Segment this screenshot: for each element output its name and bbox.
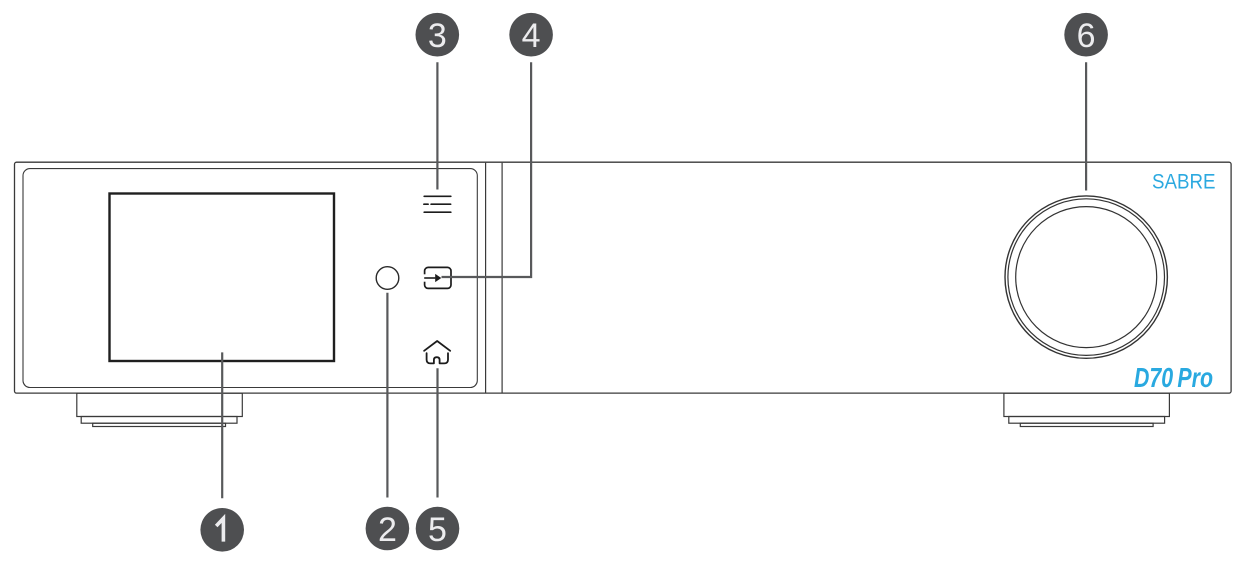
svg-text:4: 4 bbox=[522, 17, 541, 55]
volume knob inner circle bbox=[1016, 207, 1157, 348]
leader line 3 (to menu icon) bbox=[436, 62, 438, 189]
left module inner rounded rectangle bbox=[23, 169, 477, 388]
volume knob middle ring bbox=[1008, 199, 1165, 356]
callout circle 4 bbox=[509, 13, 553, 57]
volume knob outer ring bbox=[1005, 196, 1167, 358]
input select icon (box with incoming arrow) bbox=[423, 267, 451, 288]
leader line 6 (to volume knob) bbox=[1085, 62, 1087, 190]
leader line 2 (to IR sensor) bbox=[386, 293, 388, 498]
callout circle 2 bbox=[366, 507, 410, 551]
leader line 1 (to display screen) bbox=[221, 352, 223, 498]
left foot tier 2 bbox=[81, 417, 237, 424]
callout circle 5 bbox=[416, 507, 460, 551]
callout circle 6 bbox=[1064, 13, 1108, 57]
display screen bbox=[110, 194, 335, 362]
svg-text:SABRE: SABRE bbox=[1152, 169, 1216, 193]
left foot tier 3 bbox=[93, 423, 226, 426]
chassis outer rectangle bbox=[15, 162, 1232, 393]
panel seam groove line right bbox=[501, 163, 503, 393]
svg-text:3: 3 bbox=[428, 17, 447, 55]
right foot tier 2 bbox=[1009, 417, 1165, 424]
leader line 4 (to input icon, vertical then horizontal) bbox=[442, 62, 532, 277]
svg-text:2: 2 bbox=[378, 511, 397, 549]
svg-text:D70 Pro: D70 Pro bbox=[1134, 362, 1213, 393]
panel seam groove line left bbox=[485, 163, 487, 393]
right foot tier 3 bbox=[1020, 423, 1153, 426]
left foot tier 1 bbox=[77, 393, 243, 416]
IR sensor circle bbox=[376, 267, 399, 290]
callout circle 3 bbox=[416, 13, 460, 57]
svg-text:6: 6 bbox=[1077, 17, 1096, 55]
svg-text:5: 5 bbox=[428, 511, 447, 549]
leader line 5 (to home icon) bbox=[436, 368, 438, 497]
home icon bbox=[424, 341, 450, 363]
menu icon (3 lines) bbox=[424, 196, 451, 212]
callout circle 1 bbox=[200, 508, 244, 552]
right foot tier 1 bbox=[1004, 393, 1170, 416]
